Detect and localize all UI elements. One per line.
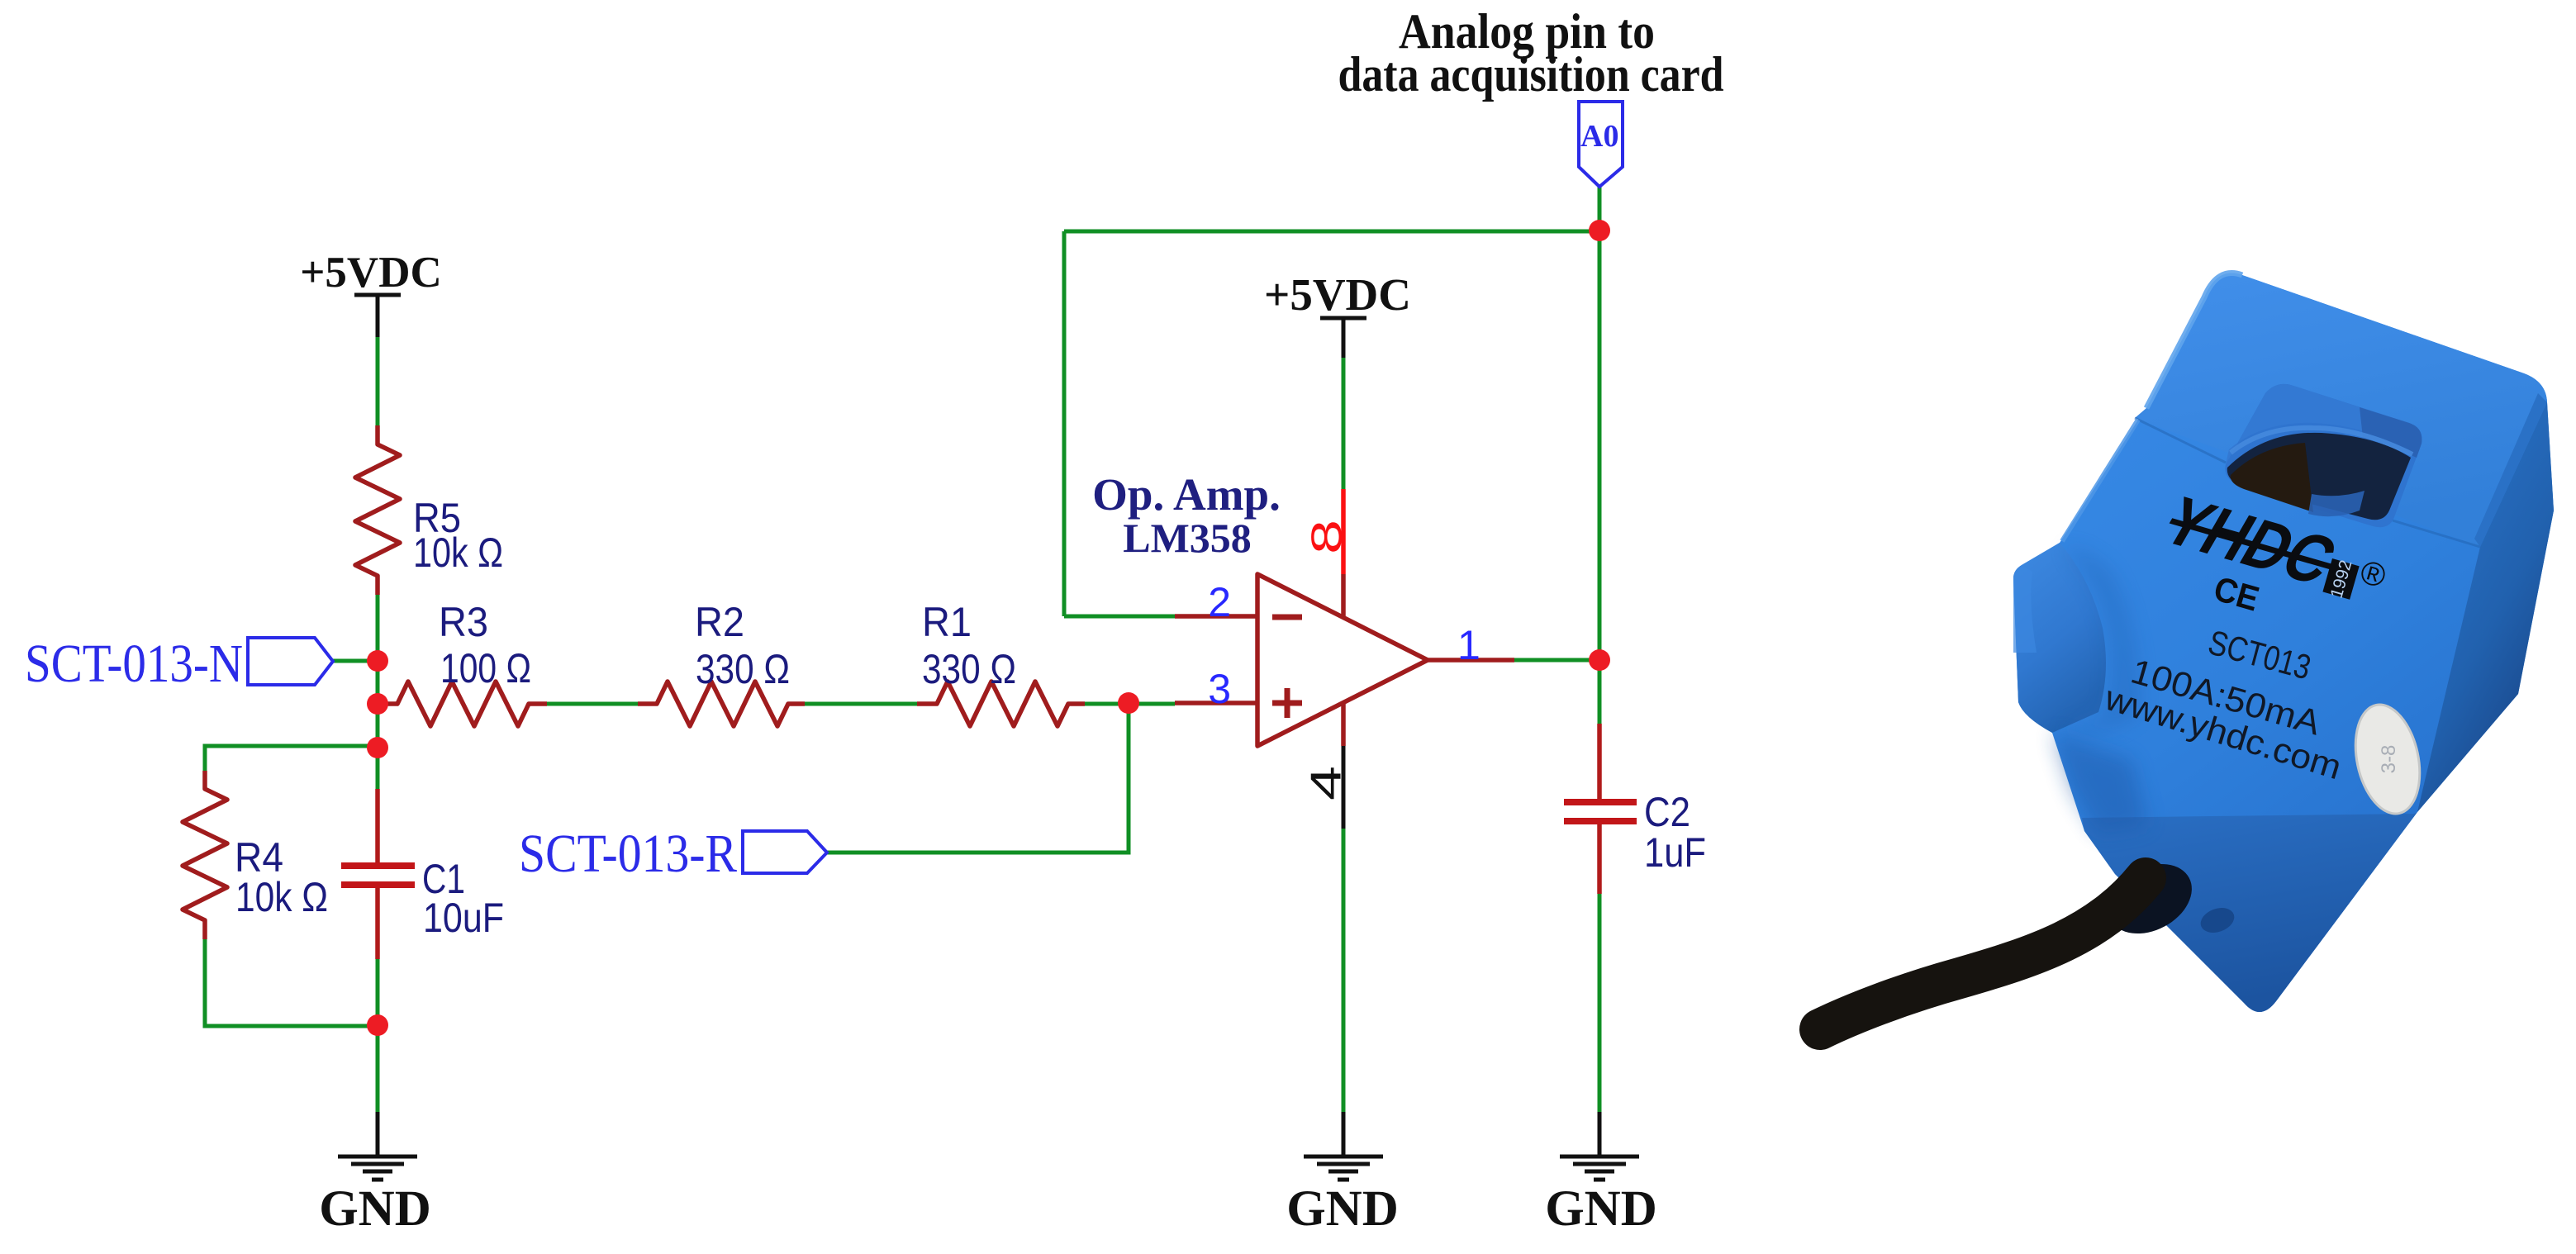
svg-text:GND: GND bbox=[1545, 1181, 1657, 1237]
svg-text:GND: GND bbox=[319, 1181, 431, 1237]
svg-text:SCT-013-R: SCT-013-R bbox=[519, 824, 737, 884]
svg-text:A0: A0 bbox=[1580, 119, 1618, 154]
svg-text:330 Ω: 330 Ω bbox=[696, 646, 790, 692]
svg-text:R3: R3 bbox=[439, 599, 488, 645]
svg-text:2: 2 bbox=[1208, 579, 1231, 625]
svg-text:10uF: 10uF bbox=[423, 895, 504, 941]
svg-text:LM358: LM358 bbox=[1123, 515, 1252, 561]
svg-text:3: 3 bbox=[1208, 666, 1231, 712]
svg-text:4: 4 bbox=[1303, 766, 1351, 800]
svg-text:R2: R2 bbox=[695, 599, 744, 645]
svg-text:+5VDC: +5VDC bbox=[1264, 269, 1411, 320]
svg-text:1uF: 1uF bbox=[1644, 829, 1706, 876]
svg-text:10k Ω: 10k Ω bbox=[235, 874, 328, 920]
svg-text:330 Ω: 330 Ω bbox=[922, 646, 1016, 692]
svg-text:GND: GND bbox=[1286, 1181, 1399, 1237]
svg-text:1: 1 bbox=[1457, 622, 1480, 668]
svg-text:R1: R1 bbox=[922, 599, 972, 645]
svg-text:+5VDC: +5VDC bbox=[300, 249, 442, 297]
svg-text:3-8: 3-8 bbox=[2378, 745, 2400, 774]
svg-text:8: 8 bbox=[1304, 520, 1352, 554]
svg-text:10k Ω: 10k Ω bbox=[413, 530, 503, 576]
svg-text:C2: C2 bbox=[1644, 789, 1690, 835]
svg-text:Op. Amp.: Op. Amp. bbox=[1092, 469, 1281, 520]
svg-text:data acquisition card: data acquisition card bbox=[1338, 47, 1724, 102]
svg-text:100 Ω: 100 Ω bbox=[440, 645, 531, 691]
svg-text:SCT-013-N: SCT-013-N bbox=[25, 634, 243, 694]
